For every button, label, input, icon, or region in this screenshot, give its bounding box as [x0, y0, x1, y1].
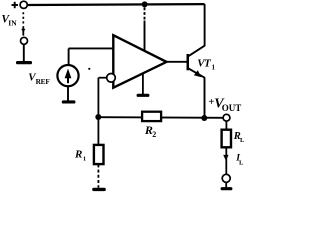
- plus sign: [12, 2, 19, 8]
- wire inverting input: [99, 77, 107, 79]
- arrow VIN direction: [22, 12, 24, 25]
- stray mark: [88, 68, 90, 70]
- wire noninverting input: [69, 47, 114, 49]
- wire op-amp supply: [144, 8, 146, 22]
- wire RL bottom: [225, 147, 227, 174]
- ground op-amp: [137, 94, 150, 97]
- wire input to ground: [23, 44, 25, 61]
- wire RL top: [225, 121, 227, 130]
- wire VREF top: [68, 48, 70, 64]
- ground input: [16, 61, 32, 64]
- svg-text:2: 2: [152, 130, 156, 139]
- node feedback junction: [95, 114, 101, 120]
- wire emitter down: [204, 77, 206, 116]
- ground RL: [221, 187, 233, 190]
- wire VREF bottom: [67, 86, 69, 101]
- wire top rail: [27, 3, 204, 6]
- ground VREF: [62, 100, 76, 103]
- wire feedback vertical: [97, 78, 99, 117]
- terminal input low: [21, 37, 28, 44]
- ground R1: [92, 188, 106, 191]
- svg-text:VT: VT: [197, 57, 212, 69]
- svg-text:1: 1: [212, 64, 216, 71]
- svg-text:L: L: [239, 159, 244, 166]
- resistor RL: [222, 130, 231, 148]
- svg-text:L: L: [240, 137, 245, 144]
- resistor R2: [142, 112, 161, 121]
- arrow IL: [223, 155, 228, 161]
- terminal output low: [222, 174, 230, 182]
- wire collector drop: [204, 4, 206, 46]
- svg-text:IN: IN: [8, 19, 17, 28]
- resistor R1: [94, 145, 104, 164]
- wire R1 top: [97, 117, 99, 145]
- node supply junction: [142, 1, 148, 7]
- node output junction: [201, 115, 207, 121]
- inverting input circle: [107, 74, 116, 83]
- op-amp U1: [113, 35, 166, 87]
- svg-text:OUT: OUT: [222, 103, 242, 113]
- wire output low to ground: [225, 182, 227, 187]
- svg-text:REF: REF: [36, 77, 51, 86]
- wire op-amp ground: [142, 74, 144, 95]
- wire output to base: [166, 61, 188, 63]
- terminal output: [223, 114, 230, 121]
- wire mid horizontal: [98, 116, 223, 119]
- svg-text:1: 1: [83, 155, 86, 162]
- terminal + input: [20, 1, 27, 8]
- svg-text:R: R: [74, 149, 82, 161]
- transistor VT1: [187, 46, 205, 78]
- wire R1 to ground dashed: [97, 164, 99, 187]
- current source VREF: [57, 65, 78, 86]
